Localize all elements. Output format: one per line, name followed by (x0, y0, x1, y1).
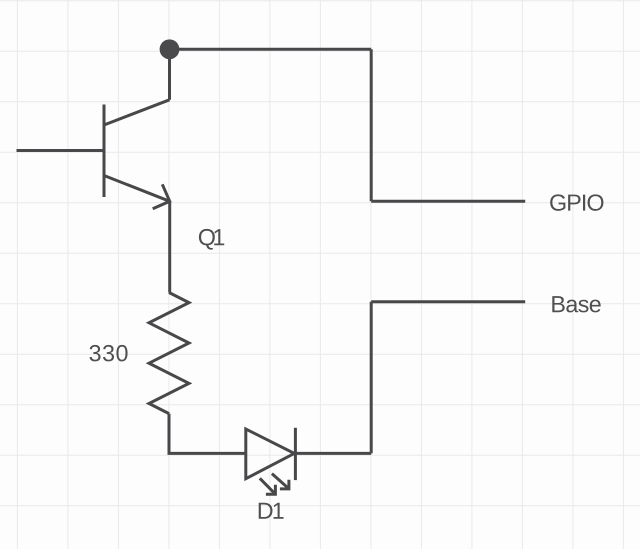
net label GPIO (550, 194, 603, 211)
net label Base (552, 296, 600, 312)
wire: base lead entering from left (17, 149, 105, 152)
wire: horizontal to GPIO terminal (371, 200, 525, 203)
wire: junction dot down to collector bend (168, 49, 171, 100)
label Q1 (199, 229, 224, 250)
resistor 330 (149, 293, 189, 414)
wire: emitter down to resistor top (168, 201, 171, 292)
wire: vertical from Base row down to LED cathode side (370, 302, 373, 454)
label D1 (259, 503, 284, 519)
junction dot (160, 39, 180, 59)
transistor Q1 (104, 100, 170, 209)
LED D1 (246, 428, 296, 495)
label 330 (89, 345, 127, 362)
wire: resistor bottom to LED anode (corner) (169, 414, 246, 454)
wire: LED cathode to right riser (295, 452, 371, 455)
wire: junction dot to top-right corner (170, 48, 372, 51)
wire: right vertical from top corner down to GPIO row (370, 49, 373, 201)
wire: Base terminal horizontal (371, 300, 525, 303)
